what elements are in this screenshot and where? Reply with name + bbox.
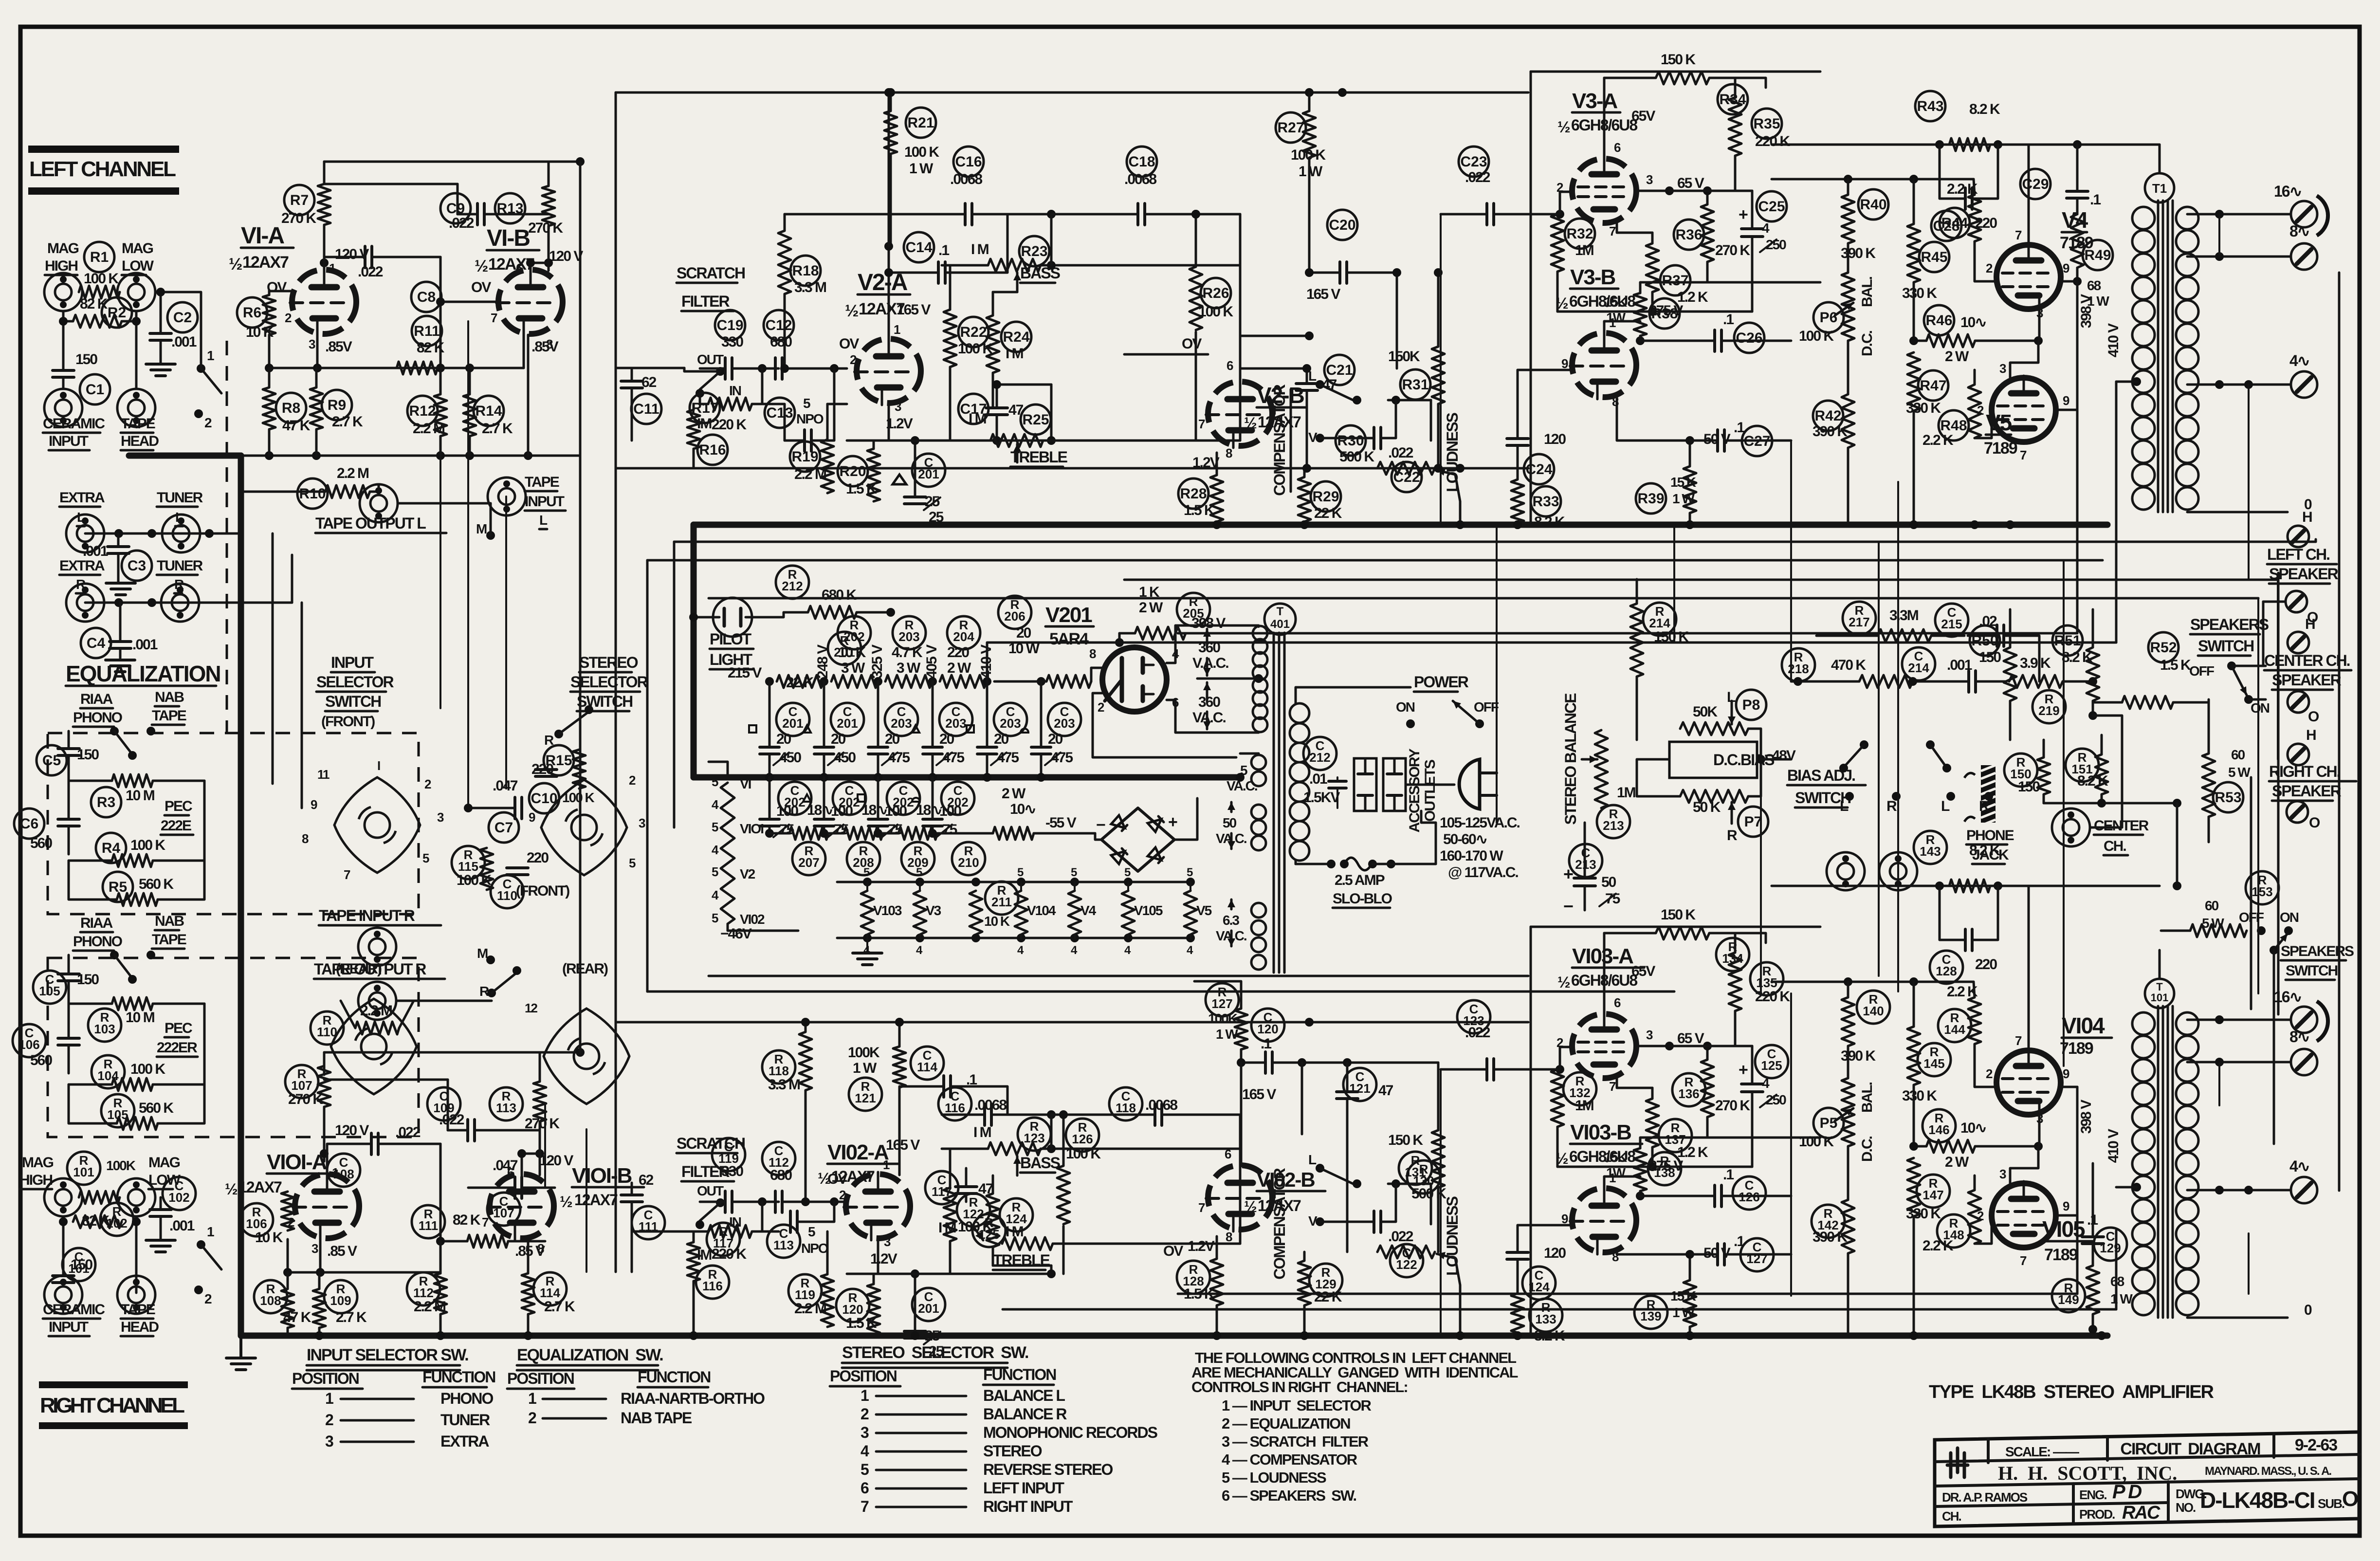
wire bottom v edge: [615, 1022, 617, 1272]
capacitor C14: [884, 214, 1007, 283]
resistor R150: [2004, 740, 2050, 803]
svg-text:R11: R11: [414, 323, 439, 339]
svg-text:P8: P8: [1742, 697, 1760, 713]
resistor R142: [1812, 1158, 1854, 1336]
accessory outlet 1: [1354, 758, 1376, 811]
svg-text:8∿: 8∿: [2289, 1028, 2309, 1046]
label TUNER L: [157, 490, 203, 526]
svg-text:.001: .001: [83, 543, 108, 559]
svg-text:.1: .1: [1261, 1036, 1271, 1052]
svg-text:401: 401: [1270, 618, 1290, 631]
svg-text:203: 203: [898, 629, 919, 644]
wire bplus rail left: [616, 88, 1528, 97]
transformer T401 core: [1264, 604, 1296, 973]
thick bus vertical 2: [691, 525, 697, 777]
capacitor C201b: [904, 1269, 945, 1359]
svg-text:10 K: 10 K: [838, 644, 866, 661]
svg-text:107: 107: [291, 1078, 312, 1093]
svg-text:100 K: 100 K: [562, 790, 594, 805]
svg-text:LEFT INPUT: LEFT INPUT: [983, 1479, 1064, 1497]
svg-text:STEREO: STEREO: [983, 1442, 1042, 1460]
wire jack row L: [85, 529, 241, 538]
resistor R44: [1940, 179, 1996, 281]
svg-text:H: H: [2305, 616, 2315, 632]
jack mag high 2: [44, 1178, 82, 1216]
svg-text:TAPE OUTPUT L: TAPE OUTPUT L: [315, 514, 426, 532]
pin 3 VI03-A: [1636, 1028, 1674, 1050]
label 1.2V v102a: [870, 1251, 897, 1267]
switch speakers top: [2189, 661, 2270, 716]
pin 3 V3-A: [1636, 172, 1674, 195]
svg-text:390 K: 390 K: [1841, 245, 1876, 261]
svg-text:R1: R1: [90, 249, 109, 265]
svg-text:390 K: 390 K: [1841, 1048, 1876, 1064]
svg-text:.001: .001: [132, 637, 158, 653]
svg-text:210: 210: [958, 855, 979, 870]
wire stereo rear drop: [545, 1105, 586, 1272]
svg-text:100 K: 100 K: [130, 1061, 165, 1077]
wire r7 tube: [323, 225, 326, 271]
svg-text:8: 8: [1089, 646, 1096, 661]
svg-text:398 V: 398 V: [1191, 615, 1226, 631]
resistor R36: [1674, 186, 1750, 282]
resistor R103: [69, 997, 204, 1042]
svg-text:222ER: 222ER: [157, 1040, 198, 1056]
transformer T1 core: [2145, 173, 2174, 512]
resistor R112: [407, 1241, 447, 1336]
svg-text:212: 212: [1309, 750, 1330, 765]
svg-text:2: 2: [528, 1409, 536, 1427]
label 398V T101: [2078, 1100, 2094, 1134]
svg-text:213: 213: [1603, 818, 1624, 833]
wire plate top T101: [2159, 950, 2161, 979]
svg-text:H. H. SCOTT, INC.: H. H. SCOTT, INC.: [1998, 1462, 2177, 1484]
svg-text:3.9 K: 3.9 K: [2020, 655, 2051, 671]
junction dots rail y190: [884, 88, 1401, 277]
switch scratch filter: [696, 367, 741, 398]
svg-text:2 W: 2 W: [1139, 600, 1163, 616]
capacitor C117: [925, 1168, 993, 1204]
jack tape output r: [358, 982, 396, 1020]
svg-text:P D: P D: [2112, 1481, 2142, 1503]
svg-text:RIGHT CH.: RIGHT CH.: [2269, 763, 2340, 780]
svg-text:1 W: 1 W: [909, 161, 934, 177]
wire v1b grid: [436, 297, 498, 306]
svg-text:4: 4: [1762, 220, 1770, 236]
svg-text:.001: .001: [171, 334, 197, 350]
pin 3 V101A: [311, 1241, 318, 1256]
svg-text:113: 113: [773, 1238, 794, 1252]
winding T101 primary: [2105, 1012, 2155, 1315]
svg-text:5: 5: [1187, 866, 1193, 879]
svg-text:330: 330: [721, 334, 743, 350]
label L bias: [1727, 689, 1736, 705]
switch compensator: [1308, 368, 1431, 445]
capacitor C121: [1336, 1063, 1393, 1252]
svg-text:H: H: [2306, 727, 2316, 743]
wire speaker fb bottom: [2219, 1063, 2249, 1294]
svg-text:560 K: 560 K: [139, 1100, 174, 1116]
resistor R20: [838, 441, 889, 501]
svg-text:82 K: 82 K: [453, 1212, 481, 1228]
svg-text:147: 147: [1922, 1188, 1943, 1202]
resistor R132: [1551, 1069, 1596, 1167]
jack ceramic input: [44, 389, 82, 427]
pin 9 V5: [2056, 281, 2077, 410]
svg-text:2.7 K: 2.7 K: [336, 1309, 367, 1325]
svg-text:R32: R32: [1566, 226, 1593, 242]
power plug: [1459, 759, 1497, 809]
svg-text:TAPE INPUT R: TAPE INPUT R: [319, 907, 415, 924]
terminal 8ohm T101: [2187, 1028, 2317, 1075]
svg-text:116: 116: [945, 1101, 965, 1115]
resistor R17: [690, 368, 785, 441]
svg-text:HEAD: HEAD: [121, 433, 159, 449]
wire mid v2: [1673, 525, 1675, 643]
capacitor C111: [621, 1172, 665, 1272]
capacitor C26: [1640, 312, 1791, 353]
svg-text:6: 6: [860, 1479, 869, 1497]
svg-text:LEFT CH.: LEFT CH.: [2267, 546, 2329, 563]
svg-text:120 V: 120 V: [549, 248, 583, 264]
resistor R115: [452, 846, 493, 890]
switch equalization: [110, 727, 155, 760]
pin 9 V3-B: [1561, 356, 1568, 371]
label 0V v2b: [1124, 336, 1208, 354]
svg-text:2.7 K: 2.7 K: [544, 1299, 575, 1315]
svg-text:9: 9: [2063, 393, 2069, 408]
winding T401 HV: [1197, 625, 1267, 732]
svg-text:HEAD: HEAD: [121, 1319, 159, 1335]
svg-text:COMPENSATOR: COMPENSATOR: [1271, 1168, 1288, 1279]
svg-text:R3: R3: [97, 794, 115, 810]
svg-text:R10: R10: [299, 486, 326, 502]
svg-text:2 W: 2 W: [947, 660, 971, 676]
svg-text:PHONO: PHONO: [440, 1390, 493, 1407]
svg-text:7: 7: [482, 1215, 489, 1230]
svg-text:R37: R37: [1662, 273, 1688, 289]
tube V4: [1996, 207, 2093, 309]
jack extra L: [66, 514, 104, 552]
svg-text:6: 6: [1227, 358, 1233, 373]
svg-text:½: ½: [225, 1180, 238, 1198]
svg-text:SELECTOR: SELECTOR: [316, 673, 394, 691]
svg-text:10 M: 10 M: [126, 1010, 154, 1026]
svg-text:275 V: 275 V: [1649, 1158, 1683, 1174]
label EXTRA R: [59, 558, 105, 593]
svg-text:390 K: 390 K: [1812, 423, 1848, 440]
svg-text:165 V: 165 V: [1306, 286, 1340, 302]
svg-text:T1: T1: [2152, 181, 2167, 196]
tube V5: [1984, 376, 2056, 458]
heater bus V103 V3 V104 V4 V105 V5: [837, 866, 1212, 957]
resistor R120: [836, 1274, 889, 1335]
svg-text:½: ½: [560, 1193, 572, 1211]
wire screen rail T101: [1772, 882, 2160, 890]
label 165V v2b: [1306, 286, 1340, 302]
pin 9 VI05: [2056, 1087, 2077, 1215]
svg-text:RIAA-NARTB-ORTHO: RIAA-NARTB-ORTHO: [621, 1390, 765, 1407]
svg-text:8.2 K: 8.2 K: [1534, 1328, 1565, 1344]
tube V201: [1045, 603, 1167, 712]
svg-text:V4: V4: [2062, 207, 2088, 233]
resistor R4: [69, 833, 204, 867]
svg-text:1.2V: 1.2V: [1188, 1238, 1215, 1254]
svg-text:20: 20: [939, 731, 954, 747]
svg-text:1: 1: [860, 1387, 869, 1404]
svg-text:PEC: PEC: [165, 798, 192, 814]
resistor R15: [531, 745, 594, 805]
svg-text:I: I: [377, 758, 380, 773]
wire top rail T1: [1772, 175, 1974, 184]
resistor R210: [928, 786, 1095, 875]
label 360 VAC upper: [1192, 629, 1228, 676]
svg-text:5 — LOUDNESS: 5 — LOUDNESS: [1222, 1469, 1326, 1486]
svg-text:SWITCH: SWITCH: [2286, 963, 2338, 979]
capacitor C202 col1581: [760, 777, 811, 838]
svg-text:220 K: 220 K: [712, 417, 747, 433]
resistor R201: [765, 632, 861, 691]
svg-text:5: 5: [712, 864, 718, 879]
wire left v2: [615, 468, 617, 1022]
svg-text:5: 5: [422, 851, 429, 865]
svg-text:C23: C23: [1460, 154, 1487, 170]
svg-text:JACK: JACK: [1972, 847, 2009, 863]
svg-text:120: 120: [1544, 431, 1566, 447]
svg-text:100 K: 100 K: [130, 837, 165, 853]
svg-text:12AX7: 12AX7: [242, 253, 289, 272]
svg-text:R: R: [544, 733, 554, 748]
svg-text:R40: R40: [1860, 197, 1886, 213]
svg-text:VI03-B: VI03-B: [1570, 1120, 1631, 1144]
svg-text:SCRATCH: SCRATCH: [677, 264, 745, 282]
svg-text:3: 3: [309, 337, 315, 351]
svg-text:398 V: 398 V: [2078, 294, 2094, 328]
svg-text:C3: C3: [128, 558, 146, 574]
wire v1b plate: [526, 258, 549, 271]
label 65V out V3-A: [1677, 175, 1704, 191]
svg-text:½: ½: [1244, 1198, 1257, 1215]
svg-text:220: 220: [527, 850, 549, 866]
winding T401 50V: [1216, 802, 1266, 850]
label MAG LOW: [122, 240, 154, 275]
svg-text:−46V: −46V: [720, 926, 752, 942]
svg-text:ON: ON: [2280, 910, 2299, 925]
pin 7 V101B: [482, 1215, 489, 1230]
label 0V v102: [1163, 1243, 1183, 1259]
svg-text:C25: C25: [1758, 199, 1785, 215]
svg-text:BAL.: BAL.: [1859, 1082, 1875, 1113]
terminal center O: [2288, 691, 2319, 725]
capacitor C9: [440, 193, 549, 231]
svg-text:22 K: 22 K: [1314, 1289, 1342, 1305]
capacitor C10: [529, 770, 559, 813]
svg-text:7: 7: [2015, 228, 2022, 242]
label 120V v1a: [320, 246, 369, 267]
svg-text:1 W: 1 W: [853, 1060, 877, 1076]
wire right v3: [2063, 560, 2065, 1066]
svg-text:V3: V3: [926, 903, 941, 918]
svg-text:136: 136: [1678, 1086, 1699, 1101]
pin 6 V3-A: [1604, 78, 1621, 159]
label 165V v102a: [886, 1137, 920, 1153]
svg-text:7: 7: [1609, 1079, 1616, 1094]
wire top rail T101: [1772, 977, 1974, 986]
svg-text:0: 0: [2304, 1302, 2312, 1318]
svg-text:60: 60: [2205, 898, 2219, 913]
thick bus vertical: [238, 456, 244, 1336]
rotary input selector rear: [331, 999, 417, 1094]
svg-text:PILOT: PILOT: [710, 630, 752, 648]
label RIGHT CHANNEL: [39, 1381, 188, 1429]
svg-text:4∿: 4∿: [2289, 1157, 2309, 1175]
switch bias R2: [1979, 792, 1993, 814]
phone jack: [1964, 765, 2014, 864]
resistor R135: [1729, 933, 1790, 1046]
svg-text:2 — EQUALIZATION: 2 — EQUALIZATION: [1222, 1415, 1350, 1432]
svg-text:RIAA: RIAA: [80, 915, 113, 931]
svg-text:OV: OV: [1163, 1243, 1183, 1259]
svg-text:6: 6: [1225, 1147, 1231, 1161]
label OUT sw: [697, 352, 724, 367]
pin 1 V2A: [894, 322, 900, 337]
svg-text:7: 7: [1198, 417, 1205, 431]
capacitor C23: [1441, 147, 1572, 225]
label EXTRA L: [59, 490, 105, 526]
pin 3 V5: [1999, 341, 2038, 378]
resistor R18: [778, 214, 942, 373]
svg-text:119: 119: [795, 1287, 815, 1302]
svg-text:.85 V: .85 V: [327, 1243, 357, 1259]
svg-text:50-60∿: 50-60∿: [1443, 831, 1487, 847]
resistor R128: [1177, 1236, 1223, 1336]
resistor R1: [79, 242, 120, 298]
svg-text:2: 2: [860, 1405, 869, 1423]
svg-text:.0068: .0068: [1124, 171, 1156, 187]
label REAR 2: [562, 961, 608, 977]
tube V3-A: [1557, 89, 1637, 223]
svg-text:L: L: [1840, 798, 1849, 814]
thick bus top horizontal: [129, 453, 241, 459]
svg-text:.85 V: .85 V: [515, 1243, 545, 1259]
resistor R21: [884, 92, 939, 246]
jack tape input L: [488, 477, 526, 515]
pin 7 VI05: [2020, 1253, 2027, 1268]
resistor R2: [73, 296, 132, 328]
svg-text:½: ½: [1556, 294, 1568, 312]
svg-text:DR. A.P. RAMOS: DR. A.P. RAMOS: [1942, 1490, 2028, 1505]
bridge rectifier: [1095, 798, 1197, 871]
svg-text:65V: 65V: [1631, 108, 1655, 124]
svg-text:CIRCUIT DIAGRAM: CIRCUIT DIAGRAM: [2120, 1440, 2260, 1458]
capacitor C106: [13, 1004, 79, 1073]
svg-text:8∿: 8∿: [2289, 222, 2309, 240]
resistor R116: [687, 1231, 729, 1336]
svg-text:OV: OV: [471, 279, 491, 295]
resistor R11: [397, 257, 494, 374]
svg-text:EXTRA: EXTRA: [440, 1432, 489, 1450]
svg-text:VIOI-A: VIOI-A: [267, 1150, 327, 1174]
svg-text:SPEAKER: SPEAKER: [2272, 782, 2342, 800]
legend equalization table: [507, 1346, 765, 1427]
svg-text:203: 203: [891, 716, 912, 731]
svg-text:121: 121: [855, 1091, 876, 1105]
svg-text:25: 25: [929, 1343, 944, 1359]
switch bias L: [1839, 740, 1868, 814]
svg-text:R7: R7: [290, 192, 309, 208]
svg-text:101: 101: [73, 1165, 94, 1179]
wire 398 line bottom: [1178, 1130, 2077, 1294]
svg-text:L: L: [1308, 1152, 1317, 1167]
svg-text:100: 100: [831, 803, 853, 819]
svg-text:O: O: [2342, 1487, 2358, 1511]
svg-text:3: 3: [884, 1234, 891, 1249]
svg-text:C10: C10: [531, 790, 557, 807]
svg-text:+: +: [1168, 813, 1177, 831]
jack extra R: [66, 584, 104, 622]
svg-text:4: 4: [1017, 944, 1024, 957]
pin 2 V102A: [839, 1188, 846, 1202]
svg-text:219: 219: [2038, 703, 2059, 718]
svg-text:C1: C1: [86, 382, 104, 398]
pin 7 V4: [2015, 145, 2029, 243]
label 165V v2a: [897, 302, 931, 318]
terminal left ch O: [2286, 591, 2318, 625]
svg-text:150: 150: [77, 972, 99, 988]
wire 410 line bottom: [1003, 1230, 2116, 1309]
wire chain pin8: [1089, 646, 1102, 681]
svg-text:R43: R43: [1917, 98, 1943, 114]
capacitor C202 col1804: [858, 777, 920, 838]
label 120V v1b: [544, 248, 583, 267]
wire v101 plate rail: [324, 1048, 585, 1075]
svg-text:R51: R51: [2054, 633, 2081, 649]
svg-text:POWER: POWER: [1414, 673, 1469, 691]
label 50V VI03-B: [1617, 1245, 1731, 1261]
svg-text:47 K: 47 K: [282, 418, 311, 434]
pin 4 V201: [1167, 625, 1259, 663]
svg-text:207: 207: [798, 855, 819, 870]
svg-text:P5: P5: [1820, 1115, 1838, 1131]
svg-text:MAG: MAG: [22, 1155, 54, 1171]
svg-text:325 V: 325 V: [869, 644, 885, 679]
svg-text:217: 217: [1849, 615, 1869, 629]
capacitor C11: [616, 368, 661, 441]
switch input 2: [194, 1224, 221, 1306]
resistor R130 pot: [1377, 1160, 1455, 1259]
svg-text:R19: R19: [791, 449, 818, 465]
svg-text:330 K: 330 K: [1902, 285, 1937, 301]
capacitor C1: [53, 351, 110, 404]
terminal right ch O: [2287, 801, 2320, 831]
svg-text:106: 106: [246, 1216, 267, 1231]
svg-text:4: 4: [1124, 944, 1131, 957]
svg-text:5AR4: 5AR4: [1049, 630, 1089, 648]
capacitor C201 col1693: [803, 681, 864, 782]
label CERAMIC INPUT: [43, 416, 105, 450]
svg-text:680: 680: [770, 334, 792, 350]
resistor R22: [944, 265, 993, 441]
capacitor C6: [14, 781, 79, 854]
svg-text:2.5 AMP: 2.5 AMP: [1335, 872, 1385, 888]
svg-text:110: 110: [317, 1025, 337, 1039]
potentiometer P5: [1799, 1078, 1875, 1162]
svg-text:C11: C11: [633, 401, 659, 417]
svg-text:100 K: 100 K: [1799, 1134, 1834, 1150]
label SPEAKERS SWITCH top: [2190, 616, 2269, 656]
svg-text:128: 128: [1936, 964, 1957, 978]
svg-text:4∿: 4∿: [2289, 352, 2309, 369]
